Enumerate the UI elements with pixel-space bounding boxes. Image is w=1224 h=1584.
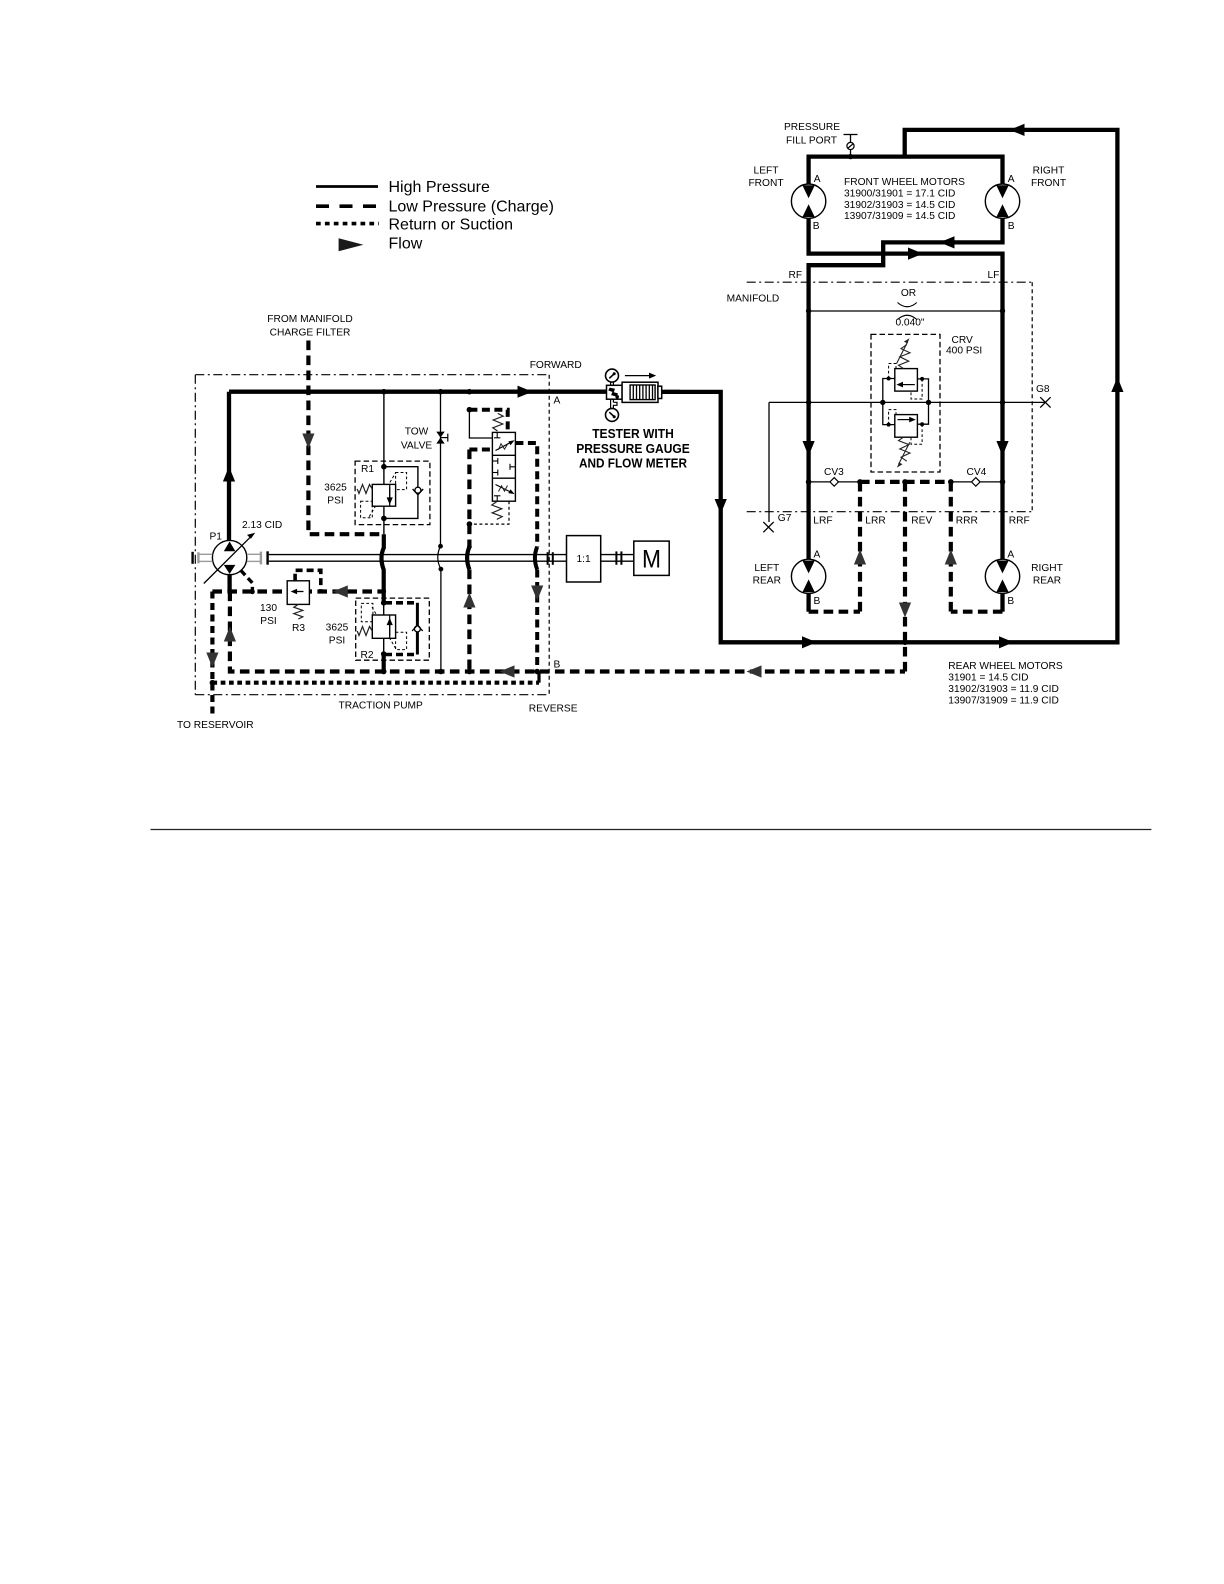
svg-text:TRACTION PUMP: TRACTION PUMP (339, 701, 424, 712)
wire: left charge drop shaft hop (467, 547, 469, 570)
node: R1 bottom junction (381, 516, 387, 522)
node: B line junction tow (438, 669, 444, 675)
tester flow direction arrow (625, 373, 656, 379)
wire: R2 outlet to B line (382, 654, 386, 672)
control valve CV1 pilot dash from bus (469, 410, 507, 433)
node: case drain junction (250, 589, 255, 594)
svg-text:MANIFOLD: MANIFOLD (727, 294, 780, 305)
wire: LF line from jog to right rear motor (883, 254, 1002, 560)
svg-text:REAR WHEEL MOTORS: REAR WHEEL MOTORS (948, 661, 1063, 672)
CRV lower valve spring and adjust arrow (897, 437, 910, 467)
tow valve line lower (440, 569, 442, 671)
svg-text:A: A (1007, 550, 1014, 561)
flow arrow up on RRR (945, 550, 957, 565)
wire: pump discharge riser (227, 392, 231, 541)
svg-text:Flow: Flow (389, 236, 423, 253)
wire: main A bus (229, 390, 607, 394)
svg-text:31902/31903 = 11.9 CID: 31902/31903 = 11.9 CID (948, 684, 1059, 695)
svg-text:RIGHT: RIGHT (1031, 563, 1063, 574)
wire: tow line shaft hop (438, 546, 441, 569)
svg-text:RRR: RRR (956, 516, 978, 527)
control valve CV1 top spring (493, 413, 503, 431)
svg-text:M: M (642, 545, 661, 573)
tester bottom gauge (606, 408, 619, 421)
svg-text:A: A (554, 396, 561, 407)
wire: right rear B lead (1000, 594, 1004, 612)
svg-text:RIGHT: RIGHT (1033, 166, 1065, 177)
svg-text:REAR: REAR (1033, 576, 1061, 587)
legend: low pressure (charge) line sample (316, 199, 554, 216)
manifold border bottom (747, 511, 1032, 513)
traction pump border bottom (195, 694, 549, 696)
flow arrow right on bottom run (left) (802, 636, 817, 648)
wire: return suction line (212, 681, 539, 685)
svg-text:CHARGE FILTER: CHARGE FILTER (270, 328, 351, 339)
wire: B return line from REV to traction pump (230, 592, 905, 672)
node: B line junction R2 (381, 669, 387, 675)
node: G8 line junctions (806, 400, 811, 405)
wire: right charge drop shaft hop (535, 547, 537, 570)
wire: right rear B loop dashed (951, 610, 1003, 614)
check valve CV3 (830, 478, 839, 487)
CRV lower pilot dash left (889, 410, 896, 425)
forward-reverse boundary dashed (548, 375, 550, 695)
motor: right rear wheel motor (985, 559, 1019, 593)
svg-text:2.13 CID: 2.13 CID (242, 520, 282, 531)
wire: high pressure main loop (tester out, down, bottom run, right riser, top run, drop to A-bus) (664, 130, 1118, 642)
svg-text:31902/31903 = 14.5 CID: 31902/31903 = 14.5 CID (844, 200, 955, 211)
horizontal page rule (151, 829, 1152, 831)
flow arrow up on left charge drop (463, 593, 475, 608)
control valve CV1 bottom pilot dash (469, 501, 509, 524)
svg-text:PSI: PSI (329, 636, 345, 647)
wire: left rear B loop dashed (809, 610, 860, 614)
svg-text:3625: 3625 (324, 483, 347, 494)
wire: RRR charge drop (949, 482, 953, 612)
flow arrow up on pump riser (223, 467, 235, 482)
wire: charge suction gallery (212, 589, 384, 593)
node: R1 top junction (381, 464, 387, 470)
flow arrow up on pump B riser (224, 627, 236, 642)
svg-text:B: B (813, 221, 820, 232)
shaft: black coupling tick right of pump (266, 551, 268, 564)
node: bus junction control valve pilot (467, 389, 473, 395)
svg-text:G7: G7 (778, 513, 792, 524)
flow arrow right on bottom run (right) (999, 636, 1014, 648)
traction pump border left (194, 375, 196, 695)
svg-text:LEFT: LEFT (754, 563, 779, 574)
shaft: gearbox to engine (601, 555, 634, 562)
flow arrow down on LF riser (996, 441, 1008, 456)
CRV upper pilot dash right (911, 379, 922, 399)
flow arrow down on charge supply (302, 434, 314, 449)
node: left charge drop at shaft (467, 544, 472, 549)
legend: return or suction line sample (316, 217, 513, 234)
flow arrow down on RF riser (803, 441, 815, 456)
wire: right front motor B lead to jog (883, 218, 1002, 253)
svg-text:LEFT: LEFT (754, 166, 779, 177)
svg-text:PRESSURE: PRESSURE (784, 122, 840, 133)
wire: RF line from jog to left rear motor (809, 254, 884, 560)
motor: left rear wheel motor (791, 559, 825, 593)
CRV dashed enclosure (871, 334, 940, 472)
wire: return to B line connector (537, 672, 540, 683)
svg-text:CV4: CV4 (967, 467, 987, 478)
tow valve symbol (436, 432, 448, 444)
svg-text:TESTER WITH: TESTER WITH (592, 426, 674, 441)
tester flow meter (622, 382, 662, 402)
check valve CV4 (972, 478, 981, 487)
relief valve R1 assembly (355, 392, 430, 535)
G8 test point X (1040, 397, 1050, 407)
label: rear wheel motors data block (948, 661, 1063, 707)
svg-text:RF: RF (789, 270, 803, 281)
node: orifice line at RF (806, 308, 811, 313)
node: bus junction charge supply (306, 389, 312, 395)
svg-text:FRONT: FRONT (748, 178, 783, 189)
svg-text:PRESSURE GAUGE: PRESSURE GAUGE (576, 441, 690, 456)
CRV upper pilot dash left (889, 364, 896, 379)
node: tow line shaft hop upper (438, 544, 443, 549)
G7 test point X (763, 522, 773, 532)
wire: orifice crossover line (809, 310, 1003, 312)
CRV upper valve spring and adjust arrow (897, 338, 910, 368)
wire: REV charge drop (903, 482, 907, 672)
svg-text:TO RESERVOIR: TO RESERVOIR (177, 720, 254, 731)
svg-text:PSI: PSI (260, 616, 276, 627)
wire: to reservoir drop (210, 592, 214, 717)
svg-text:R3: R3 (292, 623, 305, 634)
control valve CV1 right port dash (515, 443, 537, 547)
control valve CV1 pilot thin line (469, 410, 492, 438)
svg-text:TOW: TOW (405, 427, 429, 438)
wire: left front motor B lead to jog (809, 218, 884, 253)
svg-text:FROM MANIFOLD: FROM MANIFOLD (267, 314, 352, 325)
wire: LRR charge drop (858, 482, 862, 612)
wire: pump case drain diagonal (241, 570, 253, 591)
flow arrow left on B jog (940, 236, 955, 248)
node: CRV upper pilot taps (887, 377, 891, 381)
wire: pump bottom port (227, 574, 231, 592)
node: orifice line at LF (1000, 308, 1005, 313)
shaft: left stub gray coupling (198, 552, 212, 563)
pump P1 variable displacement (204, 533, 255, 584)
flow arrow down on right charge drop (531, 586, 543, 601)
flow arrow left on top run (1010, 124, 1025, 136)
shaft: coupling ticks gearbox-engine (616, 551, 621, 564)
wire: front motors A-bus with motor top leads (809, 157, 1003, 184)
legend: flow arrow (339, 236, 423, 253)
flow arrow right on LF jog (908, 248, 923, 260)
svg-text:13907/31909 = 11.9 CID: 13907/31909 = 11.9 CID (948, 695, 1059, 706)
svg-text:P1: P1 (210, 532, 223, 543)
relief valve R3 charge relief (287, 570, 321, 619)
engine M (634, 541, 669, 575)
svg-text:G8: G8 (1036, 384, 1050, 395)
legend: high pressure line sample (316, 179, 490, 196)
CRV lower relief valve U-CRV2 (883, 402, 929, 437)
node: B jog junction (880, 251, 886, 257)
flow arrow left on B return (east) (747, 665, 762, 677)
node: charge gallery at R1R2 line (381, 589, 386, 594)
flow arrow down on tester drop wire (715, 499, 727, 514)
svg-text:B: B (1007, 596, 1014, 607)
svg-text:OR: OR (901, 288, 916, 299)
CRV lower pilot dash right (911, 424, 922, 444)
svg-text:REV: REV (911, 516, 932, 527)
motor: left front wheel motor (791, 184, 825, 218)
node: reservoir drop at return line (210, 680, 216, 686)
svg-text:REAR: REAR (753, 576, 781, 587)
manifold border top (747, 281, 1032, 283)
svg-text:PSI: PSI (327, 496, 343, 507)
svg-text:RRF: RRF (1009, 516, 1030, 527)
svg-text:VALVE: VALVE (401, 441, 433, 452)
tester top gauge (606, 369, 619, 385)
svg-text:B: B (814, 596, 821, 607)
flow arrow right on A bus (518, 386, 533, 398)
flow arrow down on REV (899, 603, 911, 618)
node: control valve pilot tap (467, 407, 473, 413)
wire: charge gallery dashed segment (860, 480, 951, 484)
control valve CV1 body (492, 432, 515, 501)
control valve CV1 bottom spring (492, 502, 502, 520)
node: R2 bottom junction (381, 651, 387, 657)
svg-text:High Pressure: High Pressure (389, 179, 490, 196)
label: front wheel motors data block (844, 177, 965, 222)
wire: left rear B lead (806, 594, 810, 612)
svg-text:CRV: CRV (952, 335, 974, 346)
svg-text:A: A (814, 550, 821, 561)
svg-text:B: B (554, 660, 561, 671)
wire: G7 gauge line (768, 402, 770, 522)
wire: CV3 thin line (809, 481, 860, 483)
shaft: right gray coupling at pump (247, 552, 261, 565)
node: R2 top junction (381, 600, 387, 606)
svg-text:B: B (1008, 221, 1015, 232)
shaft: coupling ticks at forward boundary (548, 552, 553, 565)
svg-text:0.040": 0.040" (895, 318, 924, 329)
tester bottom fitting (611, 399, 617, 408)
wire: right charge drop lower (535, 570, 539, 672)
node: B line junction right charge drop (534, 669, 540, 675)
shaft: main double line to gearbox (269, 555, 567, 562)
manifold border right (1031, 282, 1033, 512)
node: fill port junction on A-bus (848, 154, 853, 159)
svg-text:A: A (1008, 174, 1015, 185)
svg-text:LF: LF (988, 270, 1000, 281)
tow valve line upper (440, 392, 442, 547)
svg-text:31900/31901 = 17.1 CID: 31900/31901 = 17.1 CID (844, 188, 955, 199)
traction pump border top (195, 374, 549, 376)
motor: right front wheel motor (985, 184, 1019, 218)
flow arrow up on LRR (854, 550, 866, 565)
wire: G8 gauge line (769, 401, 1045, 403)
wire: control valve left charge drop (467, 450, 471, 547)
gearbox 1:1 (567, 536, 601, 582)
svg-text:REVERSE: REVERSE (529, 704, 578, 715)
label: TESTER WITH PRESSURE GAUGE AND FLOW METER (576, 426, 690, 470)
svg-text:31901 = 14.5 CID: 31901 = 14.5 CID (948, 672, 1028, 683)
tester valve body (607, 385, 623, 399)
shaft: left stub coupling tick (191, 552, 193, 564)
svg-text:Return or Suction: Return or Suction (389, 217, 514, 234)
tester: bus through section (662, 390, 680, 394)
CRV upper relief valve U-CRV1 (883, 369, 929, 403)
wire: CV4 thin line (951, 481, 1003, 483)
orifice OR symbol arcs (898, 303, 917, 320)
svg-text:R2: R2 (361, 650, 374, 661)
node: tow line shaft hop lower (439, 567, 444, 572)
svg-text:Low Pressure (Charge): Low Pressure (Charge) (389, 199, 554, 216)
svg-text:1:1: 1:1 (577, 554, 591, 565)
svg-text:LRR: LRR (865, 516, 885, 527)
svg-text:400 PSI: 400 PSI (946, 346, 982, 357)
svg-text:R1: R1 (361, 464, 374, 475)
flow arrow up on right riser (1111, 377, 1123, 392)
wire: R1 charge stub across shaft to R2 (381, 534, 383, 603)
flow arrow left on charge gallery (333, 585, 348, 597)
wire: left charge drop lower (467, 570, 471, 672)
svg-text:AND FLOW METER: AND FLOW METER (579, 455, 688, 470)
node: B line junction left charge drop (467, 669, 473, 675)
svg-text:FILL PORT: FILL PORT (786, 136, 837, 147)
relief valve R2 assembly (356, 598, 430, 660)
svg-text:CV3: CV3 (824, 467, 844, 478)
svg-text:13907/31909 = 14.5 CID: 13907/31909 = 14.5 CID (844, 211, 955, 222)
svg-text:FRONT: FRONT (1031, 178, 1066, 189)
node: bus junction tow valve (438, 389, 444, 395)
svg-text:FRONT WHEEL MOTORS: FRONT WHEEL MOTORS (844, 177, 965, 188)
pressure fill port symbol (844, 135, 858, 157)
control valve CV1 left port dash (469, 448, 492, 452)
svg-text:LRF: LRF (813, 516, 832, 527)
svg-text:130: 130 (260, 603, 277, 614)
svg-text:3625: 3625 (326, 623, 349, 634)
node: REV junction on bottom high pressure run (902, 640, 908, 646)
svg-text:FORWARD: FORWARD (530, 360, 582, 371)
node: charge gallery junctions (806, 479, 812, 485)
node: bus junction R1 (381, 389, 387, 395)
node: left charge drop pilot tap (467, 521, 473, 527)
flow arrow left on B return (west) (500, 665, 515, 677)
node: CRV lower pilot taps (887, 423, 891, 427)
svg-text:A: A (814, 174, 821, 185)
flow arrow down on reservoir drop (206, 653, 218, 668)
wire: charge supply dashed from manifold filter (308, 341, 384, 535)
